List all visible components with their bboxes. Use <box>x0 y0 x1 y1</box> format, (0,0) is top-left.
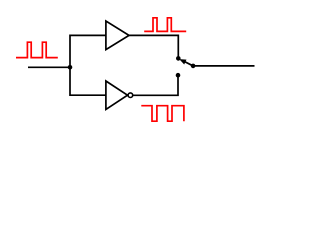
wire inverter output to bottom contact <box>133 75 178 95</box>
node junction <box>68 65 73 70</box>
wire buffer output to top contact <box>129 35 178 58</box>
wire input <box>28 66 70 68</box>
switch throw contact bottom <box>176 73 181 78</box>
switch lever SW1 <box>184 62 193 66</box>
switch pole <box>191 64 196 69</box>
wire output <box>193 65 254 67</box>
switch throw contact top <box>176 56 181 61</box>
buffer U1 <box>106 21 129 50</box>
wire junction to buffer input <box>70 35 106 67</box>
buffered pulse waveform (red) <box>144 18 186 32</box>
switch lever arrowhead <box>179 59 186 64</box>
inverter U2 <box>106 81 128 109</box>
inverter bubble <box>128 93 133 98</box>
input pulse waveform (red) <box>16 42 58 57</box>
inverted pulse waveform (red) <box>141 106 184 122</box>
wire junction to inverter input <box>70 67 106 95</box>
